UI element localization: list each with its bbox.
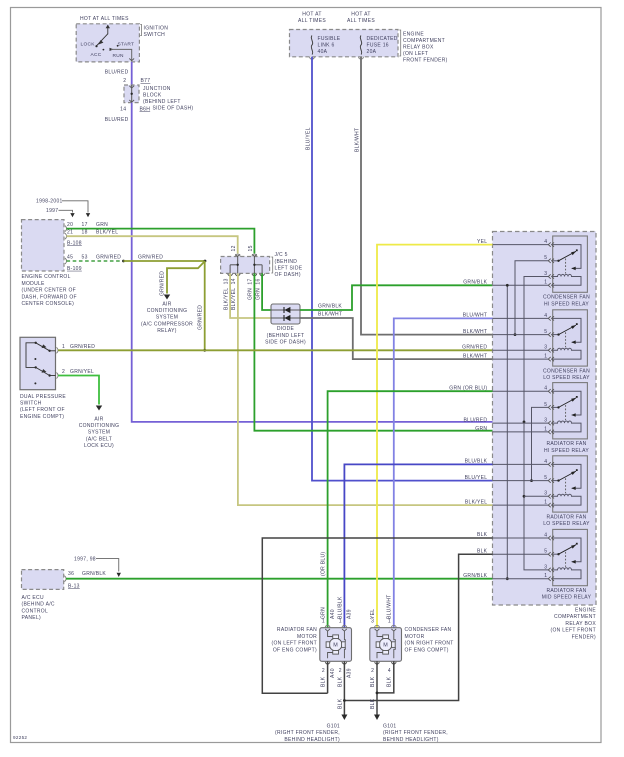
junction dot GRN/BLK lower bbox=[506, 577, 509, 580]
svg-text:(A/C COMPRESSOR: (A/C COMPRESSOR bbox=[141, 321, 193, 327]
svg-text:20: 20 bbox=[67, 222, 73, 228]
J/C 5 internal bus right bbox=[253, 257, 255, 274]
svg-text:M: M bbox=[333, 643, 338, 649]
relay: radiator fan mid speed relay U5 bbox=[553, 529, 588, 585]
svg-text:GRN/RED: GRN/RED bbox=[138, 255, 163, 261]
junction dot on BLK/WHT at pin 5 feed bbox=[514, 333, 517, 336]
wire BLK/YEL ECM to J/C 5 pin 12 bbox=[67, 236, 238, 253]
relay box internal coil bus pin 3 vertical bbox=[524, 277, 548, 570]
svg-text:SIDE OF DASH): SIDE OF DASH) bbox=[153, 106, 194, 112]
svg-text:B-108: B-108 bbox=[67, 241, 82, 247]
svg-text:GRN/RED: GRN/RED bbox=[70, 344, 95, 350]
svg-text:G101: G101 bbox=[383, 724, 396, 730]
wire BLK radiator mid relay pin 4 to radiator fan motor ground side bbox=[262, 538, 492, 693]
svg-text:40A: 40A bbox=[318, 49, 328, 55]
svg-text:(LEFT FRONT OF: (LEFT FRONT OF bbox=[20, 407, 65, 413]
svg-text:(OR BLU): (OR BLU) bbox=[321, 552, 327, 576]
junction dot GRN/RED at horizontal run bbox=[203, 349, 206, 352]
dedicated fuse 16 bbox=[360, 36, 362, 55]
svg-text:FUSIBLE: FUSIBLE bbox=[318, 36, 341, 42]
svg-text:BLK: BLK bbox=[370, 676, 376, 687]
ECM pin row 20/17 GRN bbox=[65, 226, 67, 232]
dual pressure switch bbox=[20, 337, 56, 389]
svg-text:18: 18 bbox=[82, 230, 88, 236]
wire BLK/WHT diode to condenser fan lo relay pin 1 bbox=[300, 318, 493, 359]
svg-text:1998-2001: 1998-2001 bbox=[36, 199, 63, 205]
svg-text:AIR: AIR bbox=[162, 301, 171, 307]
svg-text:ENGINE COMPT): ENGINE COMPT) bbox=[20, 414, 64, 420]
svg-text:BEHIND HEADLIGHT): BEHIND HEADLIGHT) bbox=[284, 737, 340, 743]
svg-text:2: 2 bbox=[339, 668, 342, 674]
svg-text:14: 14 bbox=[120, 106, 126, 112]
wire GRN (OR BLU) radiator hi relay pin 4 to radiator fan motor bbox=[328, 391, 493, 628]
svg-text:BLK/YEL 14: BLK/YEL 14 bbox=[231, 278, 237, 310]
svg-text:GRN 16: GRN 16 bbox=[255, 278, 261, 300]
svg-text:ALL TIMES: ALL TIMES bbox=[298, 18, 326, 24]
J/C 5 bracket label bbox=[271, 257, 272, 273]
svg-text:FENDER): FENDER) bbox=[572, 634, 596, 640]
relay: condenser fan lo speed relay U2 bbox=[553, 310, 588, 366]
wire BLK radiator fan motor pin 2 left to mid relay feed bbox=[327, 661, 329, 693]
svg-text:(BEHIND LEFT: (BEHIND LEFT bbox=[267, 333, 305, 339]
svg-text:2: 2 bbox=[322, 668, 325, 674]
svg-text:BLU/YEL: BLU/YEL bbox=[465, 475, 488, 481]
svg-text:2: 2 bbox=[62, 369, 65, 375]
svg-text:SWITCH: SWITCH bbox=[20, 401, 42, 407]
svg-text:ENGINE CONTROL: ENGINE CONTROL bbox=[22, 274, 71, 280]
svg-text:BLK/WHT: BLK/WHT bbox=[463, 329, 487, 335]
svg-text:LO SPEED RELAY: LO SPEED RELAY bbox=[543, 521, 590, 527]
diode symbol lower bbox=[283, 315, 285, 321]
relay box internal stub condenser hi pin 1 bbox=[493, 284, 549, 286]
wire BLU/BLK radiator lo relay pin 4 to radiator fan motor bbox=[344, 464, 492, 627]
fuse box bracket label bbox=[399, 30, 400, 56]
svg-text:GRN/BLK: GRN/BLK bbox=[463, 280, 487, 286]
wire BLU/WHT condenser lo relay pin 4 to condenser fan motor bbox=[394, 318, 493, 627]
svg-text:LINK 6: LINK 6 bbox=[318, 42, 335, 48]
svg-text:(A/C BELT: (A/C BELT bbox=[86, 436, 112, 442]
svg-text:GRN/RED: GRN/RED bbox=[198, 305, 204, 330]
svg-text:CONDENSER FAN: CONDENSER FAN bbox=[543, 295, 590, 301]
A/C ECU pin 36 wire GRN/BLK to radiator fan mid relay pin 1 bbox=[65, 576, 67, 582]
svg-text:20A: 20A bbox=[367, 49, 377, 55]
svg-text:DIODE: DIODE bbox=[277, 326, 295, 332]
wire BLK radiator fan motor to ground G101 bbox=[343, 661, 345, 714]
svg-text:OF ENG COMPT): OF ENG COMPT) bbox=[273, 647, 317, 653]
ECM pin row 45/53 GRN/RED bbox=[65, 258, 67, 264]
svg-text:92252: 92252 bbox=[13, 735, 27, 740]
relay box internal stub radiator lo pin 3 bbox=[524, 495, 548, 497]
relay box internal stub radiator mid pins bbox=[493, 537, 549, 539]
svg-text:(UNDER CENTER OF: (UNDER CENTER OF bbox=[22, 288, 77, 294]
svg-text:A39: A39 bbox=[347, 609, 353, 619]
wire GRN/BLK diode to condenser fan hi relay pin 1 bbox=[300, 285, 493, 310]
svg-text:BLU/WHT: BLU/WHT bbox=[387, 594, 393, 619]
svg-text:OF DASH): OF DASH) bbox=[275, 272, 301, 278]
arrow to air conditioning system A/C belt lock ECU bbox=[96, 406, 102, 411]
wire BLK/WHT fuse 16 to condenser fan lo relay pin 5 bbox=[361, 57, 493, 335]
ignition switch bbox=[76, 24, 139, 62]
svg-text:DUAL PRESSURE: DUAL PRESSURE bbox=[20, 394, 66, 400]
J/C 5 internal bus left bbox=[237, 257, 239, 274]
relay box internal stub radiator hi pins bbox=[493, 390, 549, 392]
dual pressure switch pin 1 wire GRN/RED to condenser fan lo relay pin 3 bbox=[57, 347, 59, 353]
wire GRN/RED vertical to dual pressure switch line bbox=[204, 261, 206, 350]
svg-text:LO SPEED RELAY: LO SPEED RELAY bbox=[543, 375, 590, 381]
junction dot radiator ground bus bbox=[343, 699, 346, 702]
svg-text:A40: A40 bbox=[330, 609, 336, 619]
relay box internal stub condenser hi pin 4 bbox=[493, 244, 549, 246]
junction dot condenser ground bus bbox=[376, 692, 379, 695]
svg-text:BLK: BLK bbox=[337, 676, 343, 687]
svg-text:12: 12 bbox=[231, 245, 237, 251]
svg-text:BLOCK: BLOCK bbox=[143, 93, 162, 99]
svg-text:(RIGHT FRONT FENDER,: (RIGHT FRONT FENDER, bbox=[275, 730, 340, 736]
svg-text:1997: 1997 bbox=[46, 208, 58, 214]
svg-text:HOT AT ALL TIMES: HOT AT ALL TIMES bbox=[80, 16, 129, 22]
svg-text:B6H: B6H bbox=[140, 106, 151, 112]
relay box internal GRN/BLK vertical feed bbox=[506, 285, 508, 578]
svg-text:GRN: GRN bbox=[321, 607, 327, 619]
svg-text:PANEL): PANEL) bbox=[22, 615, 42, 621]
svg-text:GRN/BLK: GRN/BLK bbox=[463, 573, 487, 579]
svg-text:BLU/RED: BLU/RED bbox=[105, 117, 129, 123]
svg-text:SWITCH: SWITCH bbox=[144, 32, 166, 38]
svg-text:CONDITIONING: CONDITIONING bbox=[147, 308, 188, 314]
svg-text:17: 17 bbox=[82, 222, 88, 228]
svg-text:MOTOR: MOTOR bbox=[297, 634, 317, 640]
ignition RUN contact and output wire bbox=[110, 48, 114, 51]
svg-text:1: 1 bbox=[62, 344, 65, 350]
svg-text:SIDE OF DASH): SIDE OF DASH) bbox=[265, 340, 306, 346]
ECM pin row 21/18 BLK/YEL bbox=[65, 233, 67, 239]
svg-text:B77: B77 bbox=[141, 78, 151, 84]
svg-text:(ON LEFT: (ON LEFT bbox=[403, 51, 428, 57]
svg-text:LOCK ECU): LOCK ECU) bbox=[84, 443, 114, 449]
junction dot coil bus at radiator lo pin 3 bbox=[523, 495, 526, 498]
svg-text:2: 2 bbox=[371, 668, 374, 674]
svg-text:YEL: YEL bbox=[370, 609, 376, 619]
svg-text:ACC: ACC bbox=[91, 52, 102, 58]
svg-text:GRN/BLK: GRN/BLK bbox=[82, 571, 106, 577]
svg-text:ALL TIMES: ALL TIMES bbox=[347, 18, 375, 24]
svg-text:AIR: AIR bbox=[94, 416, 103, 422]
svg-text:ENGINE: ENGINE bbox=[575, 608, 596, 614]
relay box internal stub radiator lo pins bbox=[493, 463, 549, 465]
svg-text:GRN/BLK: GRN/BLK bbox=[318, 304, 342, 310]
svg-text:(RIGHT FRONT FENDER,: (RIGHT FRONT FENDER, bbox=[383, 730, 448, 736]
svg-text:G101: G101 bbox=[327, 724, 340, 730]
svg-text:BLK/WHT: BLK/WHT bbox=[354, 128, 360, 152]
wire GRN ECM to J/C 5 pin 15 bbox=[67, 229, 255, 254]
svg-text:BLU/YEL: BLU/YEL bbox=[305, 127, 311, 150]
svg-text:RUN: RUN bbox=[113, 53, 125, 59]
svg-text:(ON RIGHT FRONT: (ON RIGHT FRONT bbox=[405, 641, 454, 647]
diode symbol upper bbox=[283, 307, 285, 313]
svg-text:ENGINE: ENGINE bbox=[403, 31, 424, 37]
dual pressure switch pin 2 wire GRN/YEL bbox=[57, 373, 59, 379]
junction dot GRN/RED branch bbox=[204, 260, 207, 263]
svg-text:BLK/WHT: BLK/WHT bbox=[318, 312, 342, 318]
svg-text:(ON LEFT FRONT: (ON LEFT FRONT bbox=[551, 628, 597, 634]
svg-text:BLK: BLK bbox=[370, 698, 376, 709]
diode (behind left side of dash) bbox=[271, 304, 300, 324]
svg-text:21: 21 bbox=[67, 230, 73, 236]
wire BLU/YEL fusible link to radiator fan lo relay pin 5 bbox=[312, 57, 493, 481]
svg-text:BLU/BLK: BLU/BLK bbox=[337, 596, 343, 619]
svg-text:BLK: BLK bbox=[321, 676, 327, 687]
fusible link 6 bbox=[311, 36, 313, 55]
svg-text:A/C ECU: A/C ECU bbox=[22, 595, 44, 601]
svg-text:DASH, FORWARD OF: DASH, FORWARD OF bbox=[22, 294, 77, 300]
ground G101 left bbox=[341, 715, 347, 721]
svg-text:DEDICATED: DEDICATED bbox=[367, 36, 398, 42]
wire BLK/YEL 14 J/C 5 to radiator fan lo relay pin 1 bbox=[238, 273, 493, 505]
svg-text:MODULE: MODULE bbox=[22, 281, 46, 287]
svg-text:COMPARTMENT: COMPARTMENT bbox=[554, 614, 596, 620]
wire BLU/RED ignition switch to junction block bbox=[131, 62, 133, 85]
svg-text:BLK/YEL: BLK/YEL bbox=[465, 499, 487, 505]
svg-text:CONDENSER FAN: CONDENSER FAN bbox=[543, 368, 590, 374]
svg-text:HI SPEED RELAY: HI SPEED RELAY bbox=[544, 448, 589, 454]
ignition switch bracket label bbox=[140, 25, 141, 36]
svg-text:HI SPEED RELAY: HI SPEED RELAY bbox=[544, 301, 589, 307]
svg-text:B-109: B-109 bbox=[67, 266, 82, 272]
svg-text:BLK/WHT: BLK/WHT bbox=[463, 353, 487, 359]
svg-text:START: START bbox=[118, 42, 135, 48]
svg-text:(ON LEFT FRONT: (ON LEFT FRONT bbox=[272, 641, 318, 647]
svg-text:BEHIND HEADLIGHT): BEHIND HEADLIGHT) bbox=[383, 737, 439, 743]
svg-text:MOTOR: MOTOR bbox=[405, 634, 425, 640]
svg-text:IGNITION: IGNITION bbox=[144, 25, 169, 31]
svg-text:36: 36 bbox=[68, 571, 74, 577]
svg-text:3: 3 bbox=[544, 564, 547, 570]
wire GRN 17 J/C 5 to radiator fan hi relay pin 1 bbox=[254, 273, 492, 430]
wire GRN 16 J/C 5 to diode bbox=[262, 273, 271, 310]
svg-text:1: 1 bbox=[544, 573, 547, 579]
svg-text:GRN: GRN bbox=[475, 426, 487, 432]
svg-text:CONDITIONING: CONDITIONING bbox=[79, 423, 120, 429]
svg-text:CONDENSER FAN: CONDENSER FAN bbox=[405, 627, 452, 633]
svg-text:(BEHIND LEFT: (BEHIND LEFT bbox=[143, 99, 181, 105]
svg-text:FUSE 16: FUSE 16 bbox=[367, 42, 389, 48]
svg-text:JUNCTION: JUNCTION bbox=[143, 86, 171, 92]
svg-text:SYSTEM: SYSTEM bbox=[156, 315, 178, 321]
svg-text:RADIATOR FAN: RADIATOR FAN bbox=[546, 588, 586, 594]
svg-text:OF ENG COMPT): OF ENG COMPT) bbox=[405, 647, 449, 653]
svg-text:2: 2 bbox=[123, 78, 126, 84]
relay box internal stub condenser lo pins bbox=[493, 317, 549, 319]
svg-text:A40: A40 bbox=[330, 668, 336, 678]
svg-text:SYSTEM: SYSTEM bbox=[88, 430, 110, 436]
svg-text:MID SPEED RELAY: MID SPEED RELAY bbox=[542, 595, 592, 601]
svg-text:GRN/YEL: GRN/YEL bbox=[70, 369, 94, 375]
junction dot coil bus at BLU/RED bbox=[523, 421, 526, 424]
splice dot GRN/RED bbox=[122, 260, 125, 263]
relay box internal condenser hi pin 5 to BLK/WHT junction bbox=[515, 261, 548, 335]
radiator fan motor M1 bbox=[320, 628, 352, 662]
svg-text:M: M bbox=[383, 643, 388, 649]
svg-text:CENTER CONSOLE): CENTER CONSOLE) bbox=[22, 301, 75, 307]
svg-text:GRN/RED: GRN/RED bbox=[462, 345, 487, 351]
svg-text:GRN: GRN bbox=[96, 222, 108, 228]
arrow to air conditioning system compressor relay bbox=[164, 295, 170, 300]
svg-text:BLU/RED: BLU/RED bbox=[464, 417, 488, 423]
wire GRN/RED branch to A/C compressor relay arrow bbox=[167, 261, 205, 294]
junction dot BLU/YEL at radiator hi pin 5 feed bbox=[530, 479, 533, 482]
svg-text:COMPARTMENT: COMPARTMENT bbox=[403, 38, 445, 44]
svg-text:RADIATOR FAN: RADIATOR FAN bbox=[546, 441, 586, 447]
svg-text:LOCK: LOCK bbox=[81, 42, 96, 48]
junction dot GRN/BLK upper bbox=[506, 284, 509, 287]
svg-text:53: 53 bbox=[82, 255, 88, 261]
svg-text:LEFT SIDE: LEFT SIDE bbox=[275, 266, 303, 272]
svg-text:CONTROL: CONTROL bbox=[22, 608, 49, 614]
condenser fan motor M2 bbox=[370, 628, 402, 662]
wire BLK condenser fan motor pin 4 to ground bus bbox=[377, 661, 394, 693]
relay: radiator fan hi speed relay U3 bbox=[553, 383, 588, 439]
svg-text:1997, 98: 1997, 98 bbox=[74, 556, 96, 562]
svg-text:RADIATOR FAN: RADIATOR FAN bbox=[546, 514, 586, 520]
svg-text:45: 45 bbox=[67, 255, 73, 261]
svg-text:FRONT FENDER): FRONT FENDER) bbox=[403, 57, 448, 63]
ground G101 right bbox=[374, 715, 380, 721]
svg-text:RADIATOR FAN: RADIATOR FAN bbox=[277, 627, 317, 633]
dual pressure switch internals bbox=[26, 343, 36, 368]
svg-text:BLK: BLK bbox=[338, 698, 344, 709]
svg-text:GRN 17: GRN 17 bbox=[248, 278, 254, 300]
wire BLK condenser fan motor pin 2 to ground G101 bbox=[376, 661, 378, 714]
svg-text:4: 4 bbox=[388, 668, 391, 674]
wire YEL condenser hi relay pin 4 to condenser fan motor bbox=[377, 245, 493, 628]
svg-text:(BEHIND: (BEHIND bbox=[275, 259, 298, 265]
svg-text:GRN/RED: GRN/RED bbox=[96, 255, 121, 261]
relay: condenser fan hi speed relay U1 bbox=[553, 236, 588, 292]
svg-text:B-13: B-13 bbox=[68, 583, 80, 589]
wire GRN/RED dashed segment bbox=[67, 260, 124, 262]
svg-text:(BEHIND A/C: (BEHIND A/C bbox=[22, 602, 55, 608]
svg-text:5: 5 bbox=[544, 549, 547, 555]
relay: radiator fan lo speed relay U4 bbox=[553, 456, 588, 512]
svg-text:GRN/RED: GRN/RED bbox=[159, 271, 165, 296]
svg-text:BLK/YEL: BLK/YEL bbox=[96, 230, 118, 236]
svg-text:HOT AT: HOT AT bbox=[351, 11, 370, 17]
wire BLK/YEL 13 J/C 5 to diode bbox=[230, 273, 271, 318]
relay box internal radiator hi pin 5 to BLU/YEL junction bbox=[532, 407, 549, 480]
svg-text:RELAY BOX: RELAY BOX bbox=[565, 621, 596, 627]
engine compartment relay box (relays) bbox=[493, 232, 597, 606]
svg-text:RELAY BOX: RELAY BOX bbox=[403, 44, 434, 50]
svg-text:15: 15 bbox=[248, 245, 254, 251]
svg-text:BLK: BLK bbox=[387, 676, 393, 687]
svg-text:RELAY): RELAY) bbox=[157, 328, 177, 334]
svg-text:J/C 5: J/C 5 bbox=[275, 252, 288, 258]
svg-text:BLK/YEL 13: BLK/YEL 13 bbox=[223, 278, 229, 310]
wire BLK radiator mid relay pin 5 to ground bus bbox=[344, 554, 492, 700]
svg-text:HOT AT: HOT AT bbox=[302, 11, 321, 17]
svg-text:BLU/RED: BLU/RED bbox=[105, 69, 129, 75]
svg-text:A39: A39 bbox=[347, 668, 353, 678]
